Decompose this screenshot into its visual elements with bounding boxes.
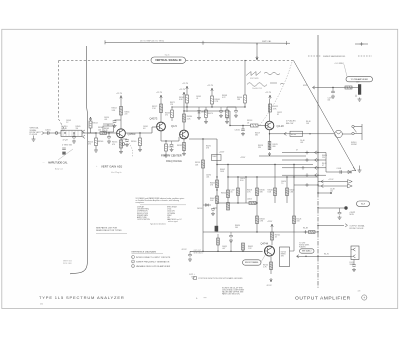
label front-panel control (bold smudge) AMPLITUDE CALIBRATOR bbox=[43, 161, 68, 171]
diode D4593 cluster on feeder bbox=[197, 204, 211, 210]
ground bar at diagonal end bbox=[358, 166, 362, 173]
svg-text:Amp Cal: Amp Cal bbox=[55, 168, 63, 171]
connector pins crossing chassis line bbox=[83, 130, 85, 138]
wire collector Q4585 up bbox=[183, 111, 185, 130]
node matrix junctions bbox=[227, 164, 294, 233]
svg-text:Sig In: Sig In bbox=[165, 55, 170, 57]
capacitor C4684 on y=172 bbox=[337, 168, 342, 174]
svg-text:SWP RATE: SWP RATE bbox=[250, 77, 260, 80]
capacitor C4571 at row left end bbox=[188, 251, 192, 261]
wire matrix rail y=177 bbox=[228, 176, 318, 178]
waveform sketch upper (sawtooth) bbox=[246, 72, 280, 76]
wire interstage Q4550 to Q4573 bbox=[126, 127, 156, 133]
connector J4699 jack (filled) bbox=[356, 81, 362, 101]
callout small box right bbox=[357, 201, 370, 206]
wire matrix top rail y=164.5 bbox=[217, 164, 313, 166]
resistor R4614 bbox=[231, 188, 240, 196]
node collector junction Q4585 bbox=[183, 110, 184, 111]
node junction interstage bbox=[139, 132, 140, 133]
svg-text:PARTS LIST SECTION.: PARTS LIST SECTION. bbox=[222, 292, 240, 295]
connector feedthrough (black) at matrix bottom bbox=[215, 226, 219, 232]
transistor Q4520 bbox=[265, 121, 274, 130]
capacitor C4574 bbox=[170, 141, 174, 152]
wire main interconnect vertical bus x=318 upper bbox=[317, 35, 319, 193]
wire right riser x=326 bbox=[325, 153, 327, 173]
wire matrix vertical x=246 bbox=[245, 177, 247, 203]
wire matrix vertical x=294 (right edge) bbox=[293, 165, 295, 233]
resistor R4606 on x217 bbox=[216, 196, 219, 204]
wire input line to delay line bbox=[44, 132, 116, 134]
svg-text:+12.2V: +12.2V bbox=[207, 85, 214, 87]
wire emitter Q4520 down bbox=[269, 130, 271, 150]
component box on row y=134 bbox=[290, 131, 303, 136]
power +225V arrow at Q4744 collector bbox=[267, 221, 273, 228]
svg-text:SWEEP FREQUENCY GENERATOR: SWEEP FREQUENCY GENERATOR bbox=[136, 260, 170, 263]
callout TO SWEEP MAGNIFIER bbox=[335, 63, 373, 82]
svg-text:680: 680 bbox=[255, 134, 258, 136]
svg-text:REFERENCE DIAGRAMS: REFERENCE DIAGRAMS bbox=[132, 250, 157, 253]
power +12.2V at Q4573 collector bbox=[156, 92, 163, 99]
svg-text:VERT GAIN ADJ: VERT GAIN ADJ bbox=[101, 165, 123, 169]
wire output row y=168 bbox=[282, 166, 326, 170]
svg-text:100: 100 bbox=[330, 190, 333, 192]
svg-text:NORM: NORM bbox=[351, 144, 357, 146]
note SEE PARTS LIST bbox=[96, 227, 127, 234]
wire output row y=175 bbox=[282, 173, 326, 177]
wire output row y=152.5 bbox=[282, 151, 326, 155]
svg-text:exceptions:: exceptions: bbox=[136, 201, 145, 204]
capacitor C4566 bias bypass bbox=[219, 107, 223, 118]
svg-text:82: 82 bbox=[277, 114, 279, 116]
wire matrix vertical x=287 bbox=[286, 177, 288, 203]
delay line DL4510 bbox=[61, 130, 82, 136]
wire sweep-cal bus (top horizontal) bbox=[105, 40, 290, 45]
svg-text:SEMICONDUCTOR TYPES: SEMICONDUCTOR TYPES bbox=[96, 230, 122, 232]
resistor R4572 collector load bbox=[152, 104, 163, 113]
capacitor C4692 on monitor row bbox=[338, 208, 342, 219]
wire swp-cal drop at x=257 bbox=[256, 43, 258, 60]
svg-text:6.8: 6.8 bbox=[143, 128, 145, 130]
svg-text:FREQ RANGE: FREQ RANGE bbox=[166, 160, 182, 163]
wire row y=225 output signal bbox=[317, 224, 347, 227]
svg-text:+12.2V: +12.2V bbox=[182, 83, 189, 85]
svg-text:OUTPUT ATTEN: OUTPUT ATTEN bbox=[137, 218, 150, 221]
node dot row134 bbox=[309, 133, 310, 134]
wire matrix vertical x=228 bbox=[227, 165, 229, 211]
resistor R4584 collector load bbox=[183, 114, 193, 122]
capacitor C4508 feedthrough bbox=[62, 148, 66, 155]
junction arrowhead at diagonal end bbox=[352, 167, 356, 171]
svg-text:2.2: 2.2 bbox=[66, 122, 68, 124]
wire top-right tick segment bbox=[355, 42, 368, 46]
resistor R4522 collector load bbox=[269, 104, 279, 112]
svg-text:SWEEP MAGNIFIER BD: SWEEP MAGNIFIER BD bbox=[323, 55, 346, 58]
dashed shield arc at Q4550 bbox=[127, 141, 133, 157]
svg-text:680: 680 bbox=[273, 146, 276, 148]
ground at input bbox=[32, 136, 36, 142]
wire matrix rail y=203 bbox=[217, 202, 257, 204]
note small revision marks bottom center bbox=[196, 297, 207, 300]
resistor R4626 lower bbox=[293, 216, 302, 224]
wire emitter Q4573 down and right bbox=[161, 131, 179, 141]
svg-text:T4600: T4600 bbox=[212, 156, 217, 158]
wire row y=133.8 from Q4520 emitter to bus bbox=[270, 132, 319, 135]
svg-text:05: 05 bbox=[231, 192, 233, 194]
svg-text:R4587: R4587 bbox=[177, 145, 182, 147]
resistor R4560 shunt bbox=[131, 133, 142, 152]
wire matrix vertical x=238 bbox=[237, 177, 239, 203]
lamp B4567 graticule bbox=[335, 130, 343, 138]
wire row from Q4585 emitter area to matrix vertical bbox=[189, 138, 217, 140]
capacitor C4612 on bottom rail bbox=[229, 232, 233, 242]
wire emitter Q4585 down bbox=[183, 139, 185, 152]
power +12.2V bias rail arrows bbox=[182, 83, 214, 92]
wire collector Q4744 up bbox=[271, 228, 273, 245]
wire trigger pickoff row bbox=[259, 155, 306, 157]
svg-text:+12.2V: +12.2V bbox=[116, 93, 123, 95]
resistor R4569 bias third leg bbox=[225, 107, 229, 124]
wire matrix right edge down to relay level bbox=[293, 232, 295, 251]
svg-text:FROM PLUG-IN: FROM PLUG-IN bbox=[350, 228, 364, 230]
transistor Q4585 bbox=[180, 130, 189, 139]
node junction on input line 2 bbox=[73, 132, 74, 133]
resistor R4552 collector load bbox=[112, 107, 123, 116]
wire y=256 to CRT plug bbox=[297, 253, 352, 258]
svg-text:47 µH: 47 µH bbox=[63, 139, 69, 141]
svg-text:C4516: C4516 bbox=[235, 129, 240, 131]
svg-text:-12.2V: -12.2V bbox=[181, 249, 187, 251]
reference diagrams list bbox=[132, 250, 171, 267]
resistor R4745 emitter bbox=[263, 262, 273, 270]
svg-text:470: 470 bbox=[112, 144, 115, 146]
wire row y=193 short bbox=[317, 192, 332, 194]
svg-text:SWP CAL: SWP CAL bbox=[262, 40, 272, 43]
svg-text:7.5: 7.5 bbox=[281, 183, 283, 185]
resistor R4518 in series with base bbox=[247, 120, 258, 127]
capacitor C4545 to ground bbox=[107, 133, 111, 143]
svg-text:R4546: R4546 bbox=[98, 141, 103, 143]
svg-text:SW: SW bbox=[281, 256, 284, 258]
svg-text:D4593: D4593 bbox=[197, 208, 202, 210]
resistor R4587 emitter bbox=[177, 143, 186, 151]
svg-text:R4560: R4560 bbox=[131, 141, 136, 143]
node base junction Q4550 bbox=[95, 132, 96, 133]
svg-text:+12.2V: +12.2V bbox=[328, 179, 334, 181]
resistor R4620 bbox=[268, 188, 277, 196]
svg-text:SEE DIAG 2: SEE DIAG 2 bbox=[194, 251, 204, 254]
svg-text:C4501: C4501 bbox=[45, 129, 51, 131]
svg-text:Q4573: Q4573 bbox=[150, 117, 158, 121]
svg-text:470: 470 bbox=[165, 115, 168, 117]
svg-text:+225V: +225V bbox=[219, 151, 225, 153]
svg-text:BELOW: BELOW bbox=[286, 123, 293, 125]
resistor R4698 series bbox=[345, 86, 352, 89]
capacitor C4697 to ground bbox=[328, 88, 336, 102]
svg-text:B4-60: B4-60 bbox=[291, 134, 296, 136]
wire row y=87.5 horiz out to jack bbox=[303, 85, 358, 89]
svg-text:R4575: R4575 bbox=[169, 147, 174, 149]
svg-text:4 TRIG SIG: 4 TRIG SIG bbox=[62, 145, 72, 147]
resistor R4578 divider bbox=[171, 106, 174, 121]
title OUTPUT AMPLIFIER bbox=[295, 295, 367, 302]
wire row y=134 right of bus to lamp bbox=[318, 133, 334, 135]
label front-panel control (bold smudge) VARIABLE row bbox=[161, 153, 182, 162]
svg-text:2: 2 bbox=[132, 261, 133, 263]
svg-text:Q4744: Q4744 bbox=[261, 243, 269, 246]
wire relay to bus bbox=[290, 250, 295, 252]
svg-text:1: 1 bbox=[132, 257, 133, 259]
wire Q4585 collector to Q4520 base bbox=[184, 111, 265, 126]
wire chassis vertical line x=86 bbox=[70, 46, 87, 274]
wire collector Q4520 up bbox=[269, 99, 271, 121]
wire stub x=243 to row bbox=[242, 243, 245, 252]
resistor R4544 series on input line bbox=[98, 127, 107, 134]
node label VERTICAL SIGNAL IN (oval callout on dashed net) bbox=[151, 55, 186, 64]
resistor R4512 after connector bbox=[88, 117, 98, 133]
svg-text:001: 001 bbox=[328, 100, 331, 102]
wire row y=186 with test point bbox=[318, 184, 352, 188]
wire collector Q4550 up bbox=[120, 100, 122, 129]
resistor R4624 lower bbox=[256, 216, 265, 224]
node junction y87.5 bbox=[332, 87, 333, 88]
ground arrow at Q4520 emitter bbox=[268, 152, 270, 156]
svg-text:449: 449 bbox=[358, 291, 361, 293]
svg-text:330: 330 bbox=[258, 147, 261, 149]
wire stub x=218 to row bbox=[217, 234, 220, 252]
svg-text:220: 220 bbox=[322, 157, 325, 159]
voltage conditions table bbox=[136, 197, 187, 225]
svg-text:FRONT PANEL: FRONT PANEL bbox=[245, 261, 260, 264]
node junction on input line bbox=[64, 132, 65, 133]
note mounted on circuit board bbox=[194, 277, 244, 281]
svg-text:L4615: L4615 bbox=[247, 198, 252, 200]
capacitor C4699 at plug bbox=[352, 260, 356, 272]
callout oval DIAG bbox=[300, 249, 315, 253]
svg-text:AMPLITUDE CAL: AMPLITUDE CAL bbox=[48, 161, 68, 165]
wire vertical-signal dashed net (left corner) bbox=[59, 60, 295, 129]
svg-text:R4570: R4570 bbox=[208, 113, 213, 115]
svg-text:VERTICAL SIGNAL IN: VERTICAL SIGNAL IN bbox=[155, 58, 181, 62]
svg-text:+: + bbox=[363, 296, 365, 300]
capacitor C4505 to ground bbox=[72, 133, 76, 143]
connector P4-91 plug bbox=[351, 246, 359, 260]
svg-text:SEE DIAG 2: SEE DIAG 2 bbox=[302, 250, 311, 253]
svg-text:.047: .047 bbox=[222, 248, 225, 250]
svg-text:TO PREAMPLIFIER: TO PREAMPLIFIER bbox=[351, 78, 369, 81]
node emitter junction Q4520 bbox=[269, 133, 270, 134]
resistor R4610 bbox=[221, 190, 230, 198]
relay K4750 box bbox=[280, 247, 290, 267]
wire row y=172 to diode network bbox=[326, 171, 352, 173]
dashed shield curve near Q4520 bbox=[259, 62, 292, 126]
node junctions on matrix vertical bbox=[216, 164, 217, 191]
svg-text:VARIABLE RESOLUTION AMPLIFIER: VARIABLE RESOLUTION AMPLIFIER bbox=[136, 265, 171, 268]
wire matrix vertical x=257 bbox=[256, 177, 258, 232]
svg-text:+12.2V: +12.2V bbox=[156, 92, 163, 94]
svg-text:434: 434 bbox=[40, 303, 43, 305]
wire emitter Q4550 down bbox=[120, 138, 122, 150]
svg-text:Q4-5: Q4-5 bbox=[171, 124, 177, 128]
wire row y=181.5 with test point bbox=[318, 179, 352, 183]
svg-text:D4567: D4567 bbox=[201, 112, 206, 114]
node junctions on coupling line bbox=[229, 125, 230, 126]
capacitor C4501 input coupling bbox=[45, 129, 51, 134]
resistor R4555 emitter bbox=[112, 140, 123, 148]
switch SW4598 contacts bbox=[342, 124, 362, 140]
resistor R4575 emitter to ground bbox=[164, 140, 174, 157]
power +12.2V at Q4550 collector bbox=[116, 93, 123, 100]
svg-text:S4-9: S4-9 bbox=[361, 203, 365, 205]
resistor R4565 bias bbox=[179, 90, 189, 107]
svg-text:Vert Plug-In: Vert Plug-In bbox=[111, 171, 121, 174]
svg-text:100: 100 bbox=[98, 129, 101, 131]
resistor R4540 on swp-cal feed bbox=[237, 95, 246, 108]
svg-text:+12.2V: +12.2V bbox=[265, 92, 272, 94]
label waveform captions bbox=[250, 77, 263, 90]
node junction T4600 top bbox=[216, 138, 218, 140]
label SWEEP MAGNIFIER dashed segment (right) bbox=[308, 55, 372, 58]
svg-text:.001: .001 bbox=[300, 142, 303, 144]
label front-panel control (bold smudge) VERT GAIN row bbox=[96, 165, 123, 175]
svg-text:SWP ⊥: SWP ⊥ bbox=[189, 273, 196, 276]
node input arrow bbox=[42, 131, 44, 134]
svg-text:.001: .001 bbox=[206, 176, 209, 178]
svg-text:OUTPUT AMPLIFIER: OUTPUT AMPLIFIER bbox=[295, 296, 351, 302]
capacitor C4555 emitter bypass bbox=[121, 139, 129, 147]
transformer T4600 box bbox=[212, 151, 226, 160]
transistor Q4573 bbox=[157, 122, 166, 131]
resistor R4570 bias divider bbox=[204, 107, 213, 124]
wire stub x=203 to row bbox=[202, 251, 203, 252]
node input termination bbox=[55, 132, 58, 135]
svg-text:PICK OFF: PICK OFF bbox=[63, 263, 73, 265]
svg-text:C4-84: C4-84 bbox=[337, 168, 342, 170]
svg-text:TYPE 1L5 SPECTRUM ANALYZER: TYPE 1L5 SPECTRUM ANALYZER bbox=[39, 295, 125, 300]
ground Q4585 emitter bbox=[182, 152, 186, 156]
svg-text:220: 220 bbox=[125, 113, 128, 115]
wire matrix vertical x=275 bbox=[274, 165, 276, 204]
diode D4567 bias bbox=[197, 107, 206, 120]
component box R4545 with value frame bbox=[103, 124, 114, 132]
wire vertical feeder x=203 down to -12V row bbox=[202, 139, 204, 251]
power -12.2V arrow at Q4744 emitter bbox=[266, 278, 272, 287]
wire main interconnect vertical bus x=318 lower (dash-dot) bbox=[317, 193, 319, 288]
wire bias tap down to Q4573 base region bbox=[186, 107, 188, 112]
inductor L4615 horizontal bbox=[247, 198, 256, 204]
wire R4578 top to bias rail bbox=[172, 106, 187, 108]
resistor R4741 collector bbox=[271, 232, 281, 240]
svg-text:.01: .01 bbox=[196, 98, 198, 100]
resistor R4591 on feeder bbox=[195, 160, 205, 168]
wire row y=208 monitor bbox=[317, 206, 356, 216]
wire bias rail horizontal bbox=[187, 106, 245, 108]
resistor R4525 emitter bbox=[268, 142, 278, 150]
svg-text:+225V: +225V bbox=[267, 221, 273, 223]
wire output row y=185 bbox=[294, 183, 319, 187]
capacitor C4516 at base to ground bbox=[235, 125, 246, 136]
ground at Q4550 emitter bbox=[119, 150, 123, 154]
wire output row y=160 bbox=[282, 158, 326, 162]
wire leader to front panel label bbox=[58, 149, 73, 160]
transistor Q4744 output bbox=[265, 246, 275, 256]
svg-text:4 LO FREQ: 4 LO FREQ bbox=[335, 63, 345, 65]
svg-text:Q4550: Q4550 bbox=[128, 132, 136, 136]
svg-text:Q4-20: Q4-20 bbox=[277, 124, 285, 128]
waveform sketch lower (sine) bbox=[247, 83, 284, 87]
svg-text:8-50: 8-50 bbox=[240, 180, 243, 182]
svg-text:R4512: R4512 bbox=[93, 123, 98, 125]
wire matrix bottom rail y=232 bbox=[203, 231, 294, 233]
power +12.2V at Q4520 collector bbox=[265, 92, 272, 99]
resistor R4546 to ground at base bbox=[94, 133, 103, 152]
svg-text:INTERCONNECT & INPUT CIRCUITS: INTERCONNECT & INPUT CIRCUITS bbox=[136, 257, 171, 259]
diode D4685 bbox=[348, 170, 351, 173]
wire swp-cal feed at x=245 bbox=[244, 60, 245, 95]
node junction matrix to rows bbox=[293, 164, 294, 165]
svg-text:PORTION JUNCTION CIRCUIT BO: PORTION JUNCTION CIRCUIT BOARD GROUND bbox=[199, 277, 244, 280]
note swp symbol bbox=[189, 273, 196, 279]
resistor R4612 bbox=[227, 203, 230, 211]
svg-text:3: 3 bbox=[132, 266, 133, 268]
svg-text:.001: .001 bbox=[104, 119, 107, 121]
svg-text:PLATES: PLATES bbox=[299, 245, 306, 248]
node junction after R4544 bbox=[108, 132, 109, 133]
svg-text:-12.2V: -12.2V bbox=[266, 285, 272, 287]
svg-text:DLY´D SWP (DLY´D TRIG): DLY´D SWP (DLY´D TRIG) bbox=[140, 40, 164, 43]
svg-text:+12.2V: +12.2V bbox=[179, 89, 186, 91]
wire matrix vertical x=217 bbox=[216, 139, 218, 232]
callout FRONT PANEL bbox=[243, 255, 266, 266]
wire collector Q4573 up bbox=[160, 99, 162, 122]
capacitor C4568 bbox=[234, 107, 238, 117]
wire emitter Q4744 down bbox=[270, 257, 272, 274]
resistor R4616 bbox=[256, 188, 265, 196]
svg-text:47: 47 bbox=[296, 150, 298, 152]
svg-text:MON: MON bbox=[350, 214, 355, 216]
svg-text:470: 470 bbox=[88, 144, 91, 146]
node junction x203 bbox=[202, 138, 203, 139]
wire row y=232 with resistor bbox=[294, 228, 319, 234]
wire -12.2V distribution row bbox=[190, 250, 263, 252]
wire stub x=231 to row bbox=[230, 241, 231, 252]
resistor R4604 on x217 bbox=[216, 180, 219, 188]
capacitor C4551 collector bypass bbox=[113, 120, 122, 128]
svg-text:R4610: R4610 bbox=[221, 192, 226, 194]
svg-text:20mSEC/DIV: 20mSEC/DIV bbox=[252, 88, 263, 90]
svg-text:+225V: +225V bbox=[240, 157, 246, 159]
wire collector Q4585 to +12.2V arrow bbox=[179, 89, 186, 111]
svg-text:560: 560 bbox=[235, 227, 238, 229]
wire long diagonal from dashed net to lower-right bus bbox=[294, 61, 356, 171]
resistor R4622 bbox=[286, 188, 295, 196]
svg-text:R4-88: R4-88 bbox=[303, 228, 308, 230]
svg-text:FINE Rf CENTER: FINE Rf CENTER bbox=[161, 153, 182, 157]
transistor Q4550 bbox=[117, 129, 126, 138]
resistor R4566 bias bbox=[211, 92, 220, 107]
wire bias rail to Q4520 region bbox=[227, 106, 236, 108]
test point circle at Q4550 emitter bbox=[122, 143, 125, 146]
svg-text:R4-91: R4-91 bbox=[324, 253, 329, 255]
node bias junctions bbox=[186, 106, 212, 107]
svg-text:47: 47 bbox=[322, 165, 324, 167]
capacitor C4607 bbox=[211, 208, 217, 216]
